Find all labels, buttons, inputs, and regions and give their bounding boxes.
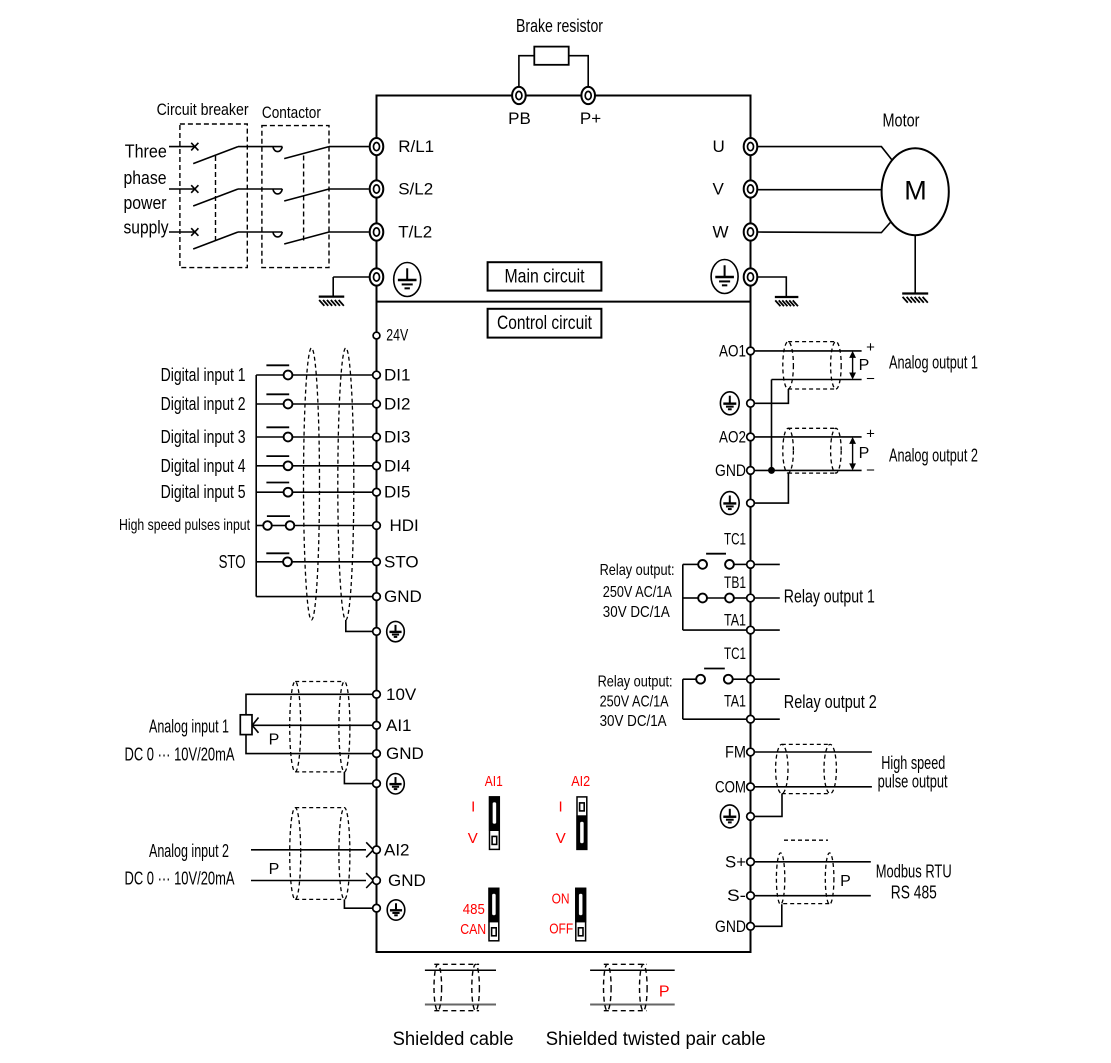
svg-text:Relay output:: Relay output:	[600, 562, 675, 579]
svg-text:ON: ON	[552, 890, 570, 907]
svg-text:P: P	[269, 861, 280, 878]
svg-text:30V DC/1A: 30V DC/1A	[603, 604, 670, 621]
svg-text:P: P	[859, 445, 870, 462]
svg-text:S+: S+	[725, 852, 746, 871]
svg-text:STO: STO	[219, 552, 246, 572]
svg-text:U: U	[713, 137, 725, 156]
svg-text:GND: GND	[388, 871, 426, 890]
svg-text:GND: GND	[386, 744, 424, 763]
svg-text:AI2: AI2	[384, 840, 410, 859]
svg-text:V: V	[713, 180, 725, 199]
svg-text:+: +	[866, 339, 875, 356]
svg-text:V: V	[468, 830, 478, 847]
svg-text:250V AC/1A: 250V AC/1A	[603, 584, 672, 601]
svg-text:M: M	[904, 176, 927, 206]
svg-text:DI5: DI5	[384, 483, 410, 502]
svg-text:High speed pulses input: High speed pulses input	[119, 517, 250, 534]
svg-text:Digital input 4: Digital input 4	[161, 456, 246, 476]
svg-text:P: P	[269, 732, 280, 749]
svg-text:I: I	[471, 798, 475, 815]
svg-text:S/L2: S/L2	[398, 180, 433, 199]
svg-text:FM: FM	[725, 743, 746, 762]
svg-text:W: W	[713, 223, 729, 242]
svg-text:STO: STO	[384, 552, 419, 571]
svg-text:Analog output 2: Analog output 2	[889, 446, 978, 466]
svg-text:−: −	[866, 462, 875, 479]
svg-text:R/L1: R/L1	[398, 137, 434, 156]
svg-text:Modbus RTU: Modbus RTU	[876, 862, 952, 882]
svg-text:−: −	[866, 371, 875, 388]
svg-text:P: P	[840, 873, 851, 890]
svg-text:250V AC/1A: 250V AC/1A	[600, 694, 669, 711]
svg-text:DI2: DI2	[384, 395, 410, 414]
svg-text:Digital input 1: Digital input 1	[161, 365, 246, 385]
svg-text:GND: GND	[384, 587, 422, 606]
svg-text:RS 485: RS 485	[891, 883, 937, 903]
svg-text:P+: P+	[580, 109, 601, 128]
svg-text:Digital input 5: Digital input 5	[161, 482, 246, 502]
svg-text:Contactor: Contactor	[262, 103, 321, 122]
svg-text:TB1: TB1	[724, 573, 746, 592]
svg-text:phase: phase	[124, 168, 167, 188]
svg-text:CAN: CAN	[460, 921, 486, 938]
svg-text:Digital input 3: Digital input 3	[161, 427, 246, 447]
svg-text:Relay output 1: Relay output 1	[784, 586, 875, 606]
svg-text:TA1: TA1	[724, 611, 746, 630]
svg-text:+: +	[866, 426, 875, 443]
svg-text:Digital input 2: Digital input 2	[161, 394, 246, 414]
svg-text:GND: GND	[715, 461, 746, 480]
svg-text:TA1: TA1	[724, 692, 746, 711]
svg-text:DC 0 ··· 10V/20mA: DC 0 ··· 10V/20mA	[125, 869, 235, 889]
svg-text:Analog input 1: Analog input 1	[149, 717, 229, 737]
svg-text:Analog output 1: Analog output 1	[889, 353, 978, 373]
svg-text:AO1: AO1	[719, 341, 746, 360]
svg-text:T/L2: T/L2	[398, 223, 432, 242]
svg-text:DC 0 ··· 10V/20mA: DC 0 ··· 10V/20mA	[125, 744, 235, 764]
svg-text:COM: COM	[715, 777, 746, 796]
svg-text:TC1: TC1	[724, 644, 746, 663]
svg-text:10V: 10V	[386, 685, 417, 704]
svg-text:Relay output:: Relay output:	[598, 674, 673, 691]
svg-text:AI2: AI2	[571, 773, 590, 790]
svg-text:AI1: AI1	[485, 773, 503, 790]
svg-text:supply: supply	[124, 217, 169, 237]
svg-text:30V DC/1A: 30V DC/1A	[600, 713, 667, 730]
svg-text:PB: PB	[508, 109, 531, 128]
svg-text:DI1: DI1	[384, 366, 410, 385]
svg-text:V: V	[556, 830, 566, 847]
svg-text:High speed: High speed	[881, 753, 945, 773]
svg-text:P: P	[659, 983, 670, 1000]
svg-text:AO2: AO2	[719, 427, 746, 446]
svg-text:Brake resistor: Brake resistor	[516, 16, 603, 36]
svg-text:Shielded twisted pair cable: Shielded twisted pair cable	[546, 1029, 766, 1050]
svg-text:HDI: HDI	[390, 516, 419, 535]
svg-text:Circuit breaker: Circuit breaker	[157, 100, 249, 119]
svg-text:Relay output 2: Relay output 2	[784, 692, 877, 712]
svg-text:OFF: OFF	[549, 920, 573, 937]
svg-text:24V: 24V	[386, 326, 408, 345]
svg-text:Motor: Motor	[883, 111, 920, 131]
svg-text:I: I	[559, 798, 563, 815]
svg-text:TC1: TC1	[724, 529, 746, 548]
svg-text:pulse output: pulse output	[878, 772, 948, 792]
svg-text:power: power	[124, 193, 167, 213]
svg-text:485: 485	[463, 901, 485, 918]
svg-text:Main circuit: Main circuit	[505, 266, 586, 287]
svg-text:AI1: AI1	[386, 716, 412, 735]
svg-text:Shielded cable: Shielded cable	[393, 1029, 514, 1050]
svg-text:S-: S-	[727, 886, 746, 905]
svg-text:DI4: DI4	[384, 456, 410, 475]
svg-text:Three: Three	[125, 142, 167, 162]
svg-text:DI3: DI3	[384, 428, 410, 447]
svg-text:Analog input 2: Analog input 2	[149, 841, 229, 861]
svg-text:GND: GND	[715, 917, 746, 936]
svg-text:Control circuit: Control circuit	[497, 313, 593, 334]
